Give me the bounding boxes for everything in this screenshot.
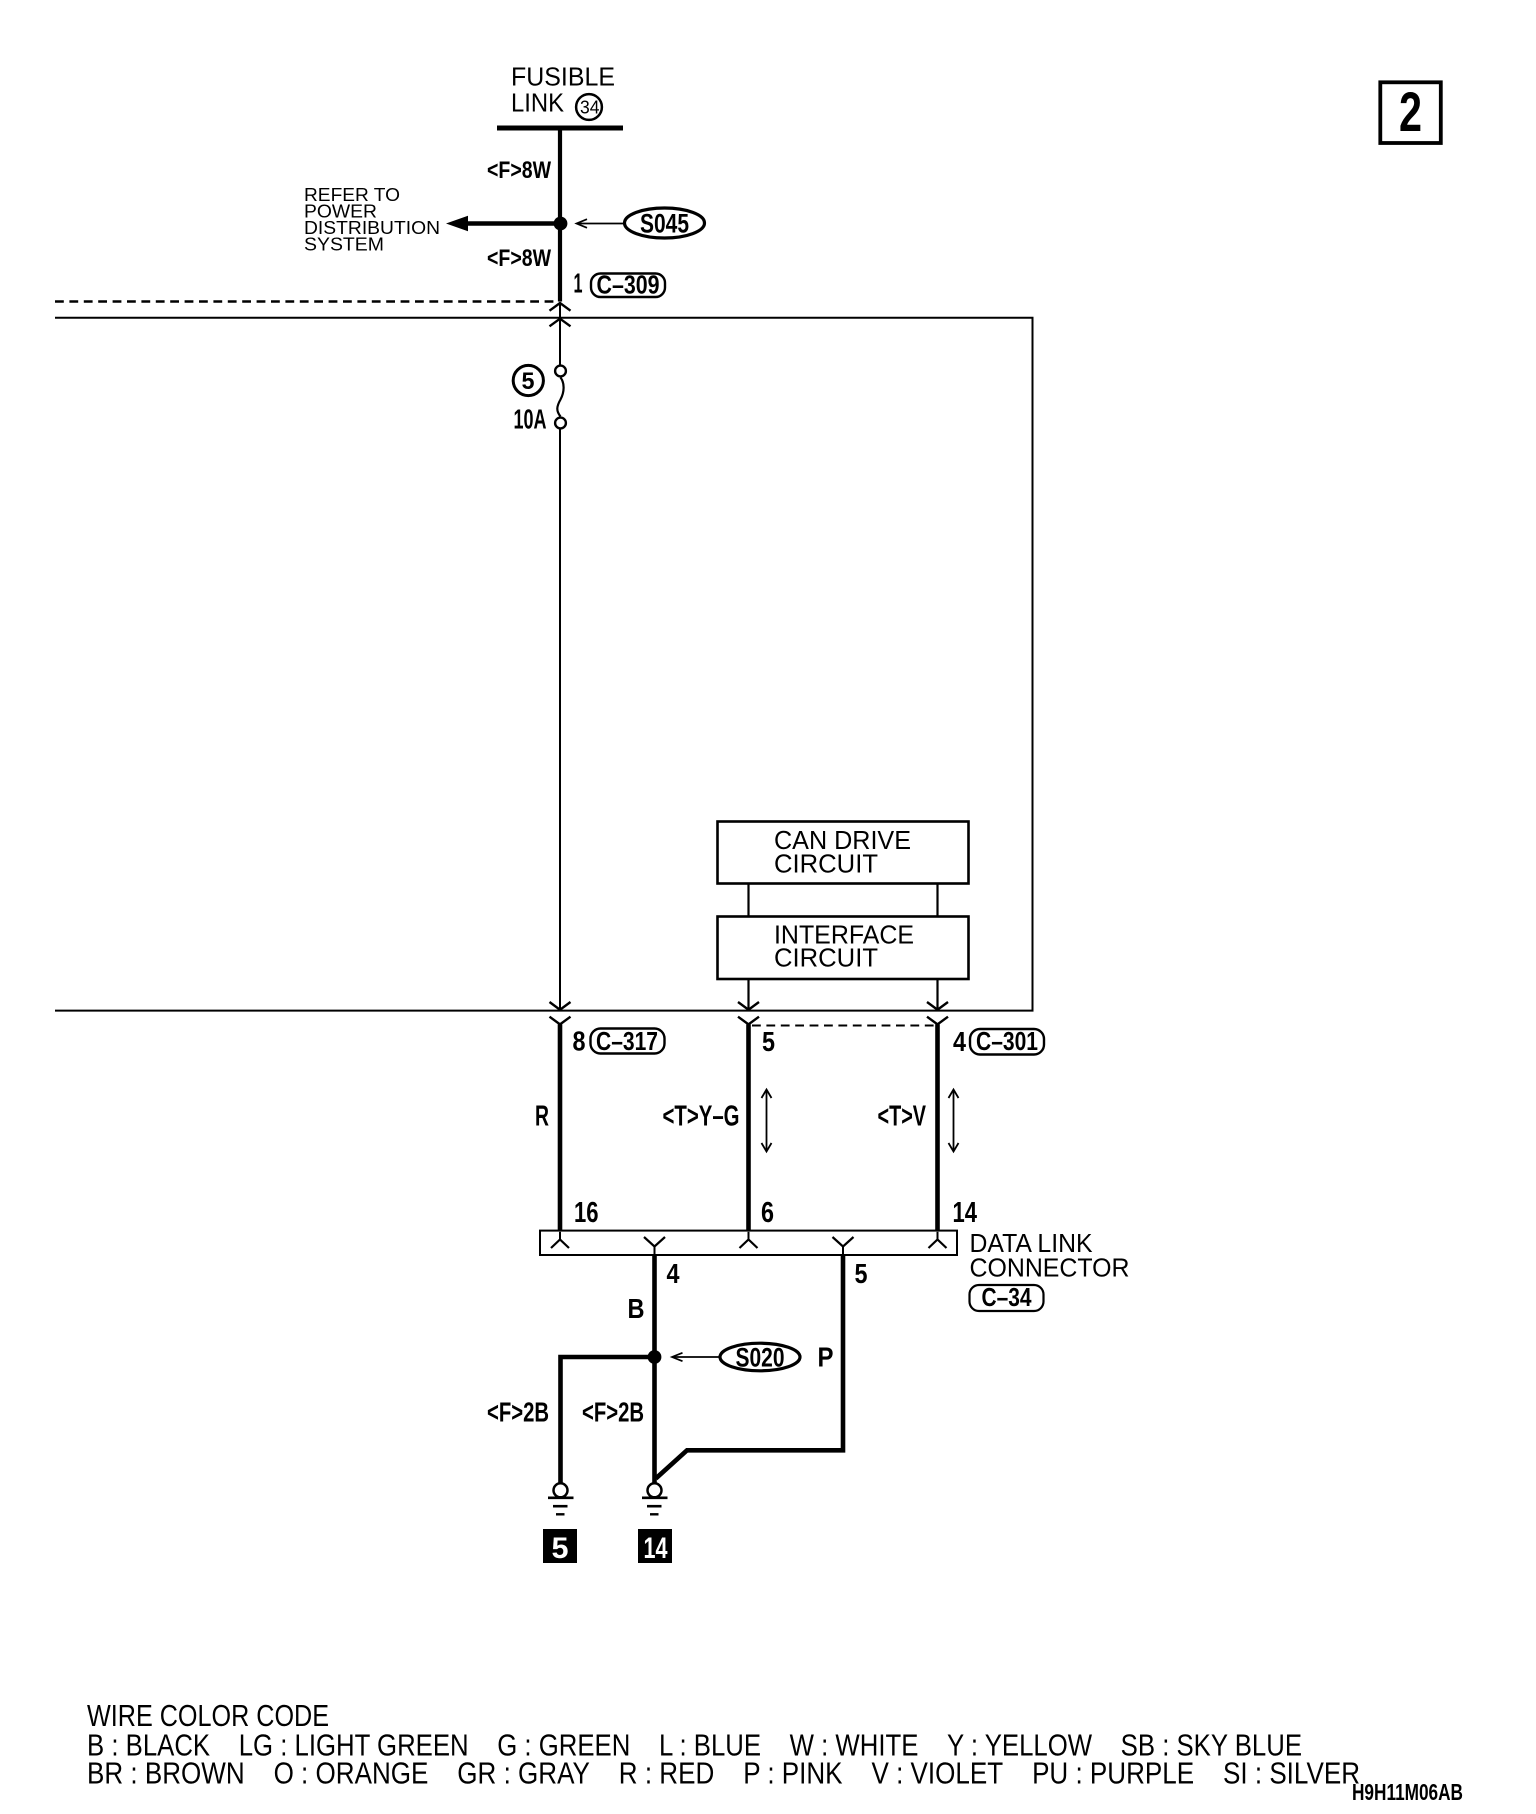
svg-text:BR : BROWN O : ORANGE GR: BR : BROWN O : ORANGE GR : GRAY R : RED … xyxy=(87,1756,1360,1791)
interface circuit block xyxy=(718,917,969,980)
bidirectional arrow (Y-G) xyxy=(762,1090,772,1152)
wire V: pin 4 to DLC pin 14 xyxy=(935,1024,940,1231)
fuse number circle 5 xyxy=(513,365,543,395)
svg-text:8: 8 xyxy=(573,1026,586,1057)
harness boundary dashed line xyxy=(55,300,558,303)
connector C-34 label xyxy=(970,1282,1044,1312)
wire: fusible link to splice S045, 8W xyxy=(558,131,562,223)
DLC pin plug 4 xyxy=(644,1237,665,1255)
note: refer to power distribution system xyxy=(304,184,440,255)
connector C-317 label xyxy=(591,1026,665,1056)
boundary crossing chevrons at C-317 pin 8 xyxy=(550,1002,571,1024)
wire R: C-317 pin 8 to DLC pin 16 xyxy=(558,1024,563,1231)
wire: C-309 to fuse 5 xyxy=(559,303,561,365)
data link connector C-34 box xyxy=(540,1231,957,1255)
svg-text:1: 1 xyxy=(574,268,583,299)
svg-text:6: 6 xyxy=(761,1197,774,1229)
wire P: DLC pin 5 to ground 14 xyxy=(656,1255,843,1478)
svg-text:5: 5 xyxy=(552,1532,569,1565)
svg-text:H9H11M06AB: H9H11M06AB xyxy=(1352,1779,1463,1805)
svg-text:2: 2 xyxy=(1399,80,1422,143)
page number box 2 xyxy=(1380,80,1441,143)
svg-text:34: 34 xyxy=(580,98,600,118)
dashed tie line between pin 5 and pin 4 xyxy=(752,1025,936,1027)
boundary crossing chevrons at pin 5 xyxy=(738,1002,759,1024)
svg-text:C–317: C–317 xyxy=(596,1026,658,1056)
DLC pin socket 14 xyxy=(929,1232,947,1248)
DLC pin socket 6 xyxy=(740,1232,758,1248)
svg-text:<F>2B: <F>2B xyxy=(487,1397,549,1428)
svg-text:CONNECTOR: CONNECTOR xyxy=(970,1255,1130,1283)
svg-text:S045: S045 xyxy=(640,209,689,239)
wire: CAN drive circuit to interface circuit (right) xyxy=(936,884,938,917)
DLC pin plug 5 xyxy=(833,1237,854,1255)
svg-text:S020: S020 xyxy=(736,1343,785,1373)
fusible link label xyxy=(511,62,615,118)
svg-text:<T>Y–G: <T>Y–G xyxy=(663,1101,740,1133)
svg-text:P: P xyxy=(818,1342,834,1373)
svg-text:SYSTEM: SYSTEM xyxy=(304,234,384,255)
svg-text:R: R xyxy=(535,1101,549,1133)
wire: interface circuit to pin 4 of C-301 xyxy=(936,979,938,1010)
svg-text:LINK: LINK xyxy=(511,88,565,118)
wire Y-G: pin 5 to DLC pin 6 xyxy=(746,1024,751,1231)
fusible link number circle 34 xyxy=(576,94,602,120)
svg-text:14: 14 xyxy=(644,1532,668,1565)
wire: splice S020 to ground 14, 2B xyxy=(652,1357,657,1484)
connector C-309 label xyxy=(591,270,665,300)
wire: splice S045 to connector C-309, 8W xyxy=(558,226,562,302)
wire: CAN drive circuit to interface circuit (left) xyxy=(747,884,749,917)
svg-text:14: 14 xyxy=(953,1197,978,1229)
ground 14 marker xyxy=(638,1529,672,1565)
svg-text:<F>8W: <F>8W xyxy=(487,157,551,184)
bidirectional arrow (V) xyxy=(949,1090,959,1152)
svg-text:C–301: C–301 xyxy=(976,1026,1038,1056)
ground 5 symbol xyxy=(548,1483,574,1514)
boundary crossing chevrons at C-301 pin 4 xyxy=(927,1002,948,1024)
svg-text:C–34: C–34 xyxy=(982,1282,1032,1312)
svg-text:16: 16 xyxy=(574,1197,599,1229)
fuse 5 xyxy=(555,366,566,429)
svg-text:<T>V: <T>V xyxy=(878,1101,927,1133)
svg-text:B: B xyxy=(628,1293,645,1324)
wire: branch to power distribution system xyxy=(466,221,560,226)
wire: interface circuit to pin 5 xyxy=(747,979,749,1010)
CAN drive circuit block xyxy=(718,822,969,884)
svg-text:CIRCUIT: CIRCUIT xyxy=(774,945,878,973)
ground 5 marker xyxy=(543,1529,577,1565)
svg-text:10A: 10A xyxy=(514,404,547,435)
wire: fuse 5 to pin 8 of C-317 xyxy=(559,429,561,1010)
svg-text:4: 4 xyxy=(953,1026,966,1057)
splice S045 callout xyxy=(577,208,705,239)
wire B: DLC pin 4 to splice S020 xyxy=(652,1255,657,1353)
svg-text:<F>8W: <F>8W xyxy=(487,245,551,272)
wire: splice S020 to ground 5, 2B xyxy=(561,1357,655,1484)
svg-text:5: 5 xyxy=(522,368,535,395)
splice S020 callout xyxy=(672,1343,800,1373)
splice S045 junction dot xyxy=(554,217,568,231)
data link connector name xyxy=(970,1230,1130,1283)
wire color code legend xyxy=(87,1698,1360,1791)
fusible link bus bar xyxy=(497,126,623,131)
svg-text:4: 4 xyxy=(667,1258,680,1289)
DLC pin socket 16 xyxy=(551,1232,569,1248)
ground 14 symbol xyxy=(642,1483,668,1514)
svg-text:5: 5 xyxy=(762,1026,775,1057)
boundary crossing chevrons at C-309 xyxy=(550,303,571,326)
svg-text:<F>2B: <F>2B xyxy=(582,1397,644,1428)
splice S020 junction dot xyxy=(648,1350,662,1364)
junction block outline xyxy=(55,318,1033,1011)
svg-text:5: 5 xyxy=(855,1258,868,1289)
svg-text:C–309: C–309 xyxy=(597,270,660,300)
arrowhead to power distribution system xyxy=(446,216,468,232)
connector C-301 label xyxy=(970,1026,1044,1056)
svg-text:CIRCUIT: CIRCUIT xyxy=(774,851,878,879)
